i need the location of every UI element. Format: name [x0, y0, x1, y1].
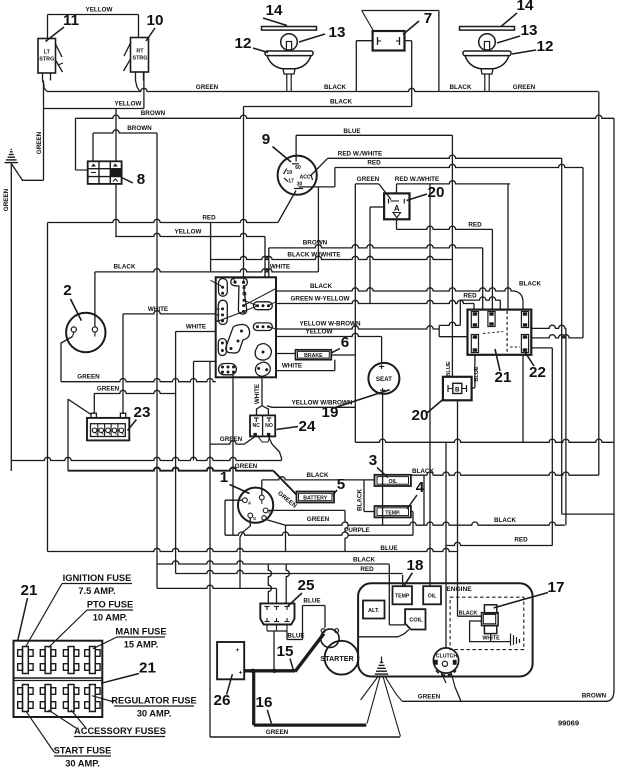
- svg-text:BLACK: BLACK: [494, 517, 516, 524]
- fuse row1 f1: [23, 647, 29, 674]
- wire hourmeter left pin down: [356, 40, 372, 42]
- alternator box: [363, 601, 385, 619]
- svg-text:OIL: OIL: [428, 594, 437, 600]
- svg-text:WHITE: WHITE: [270, 264, 290, 271]
- svg-text:BLACK: BLACK: [324, 84, 346, 91]
- wire item2 left green: [61, 337, 73, 382]
- dashed box 17: [450, 597, 524, 649]
- svg-text:ALT.: ALT.: [368, 608, 380, 614]
- svg-text:COIL: COIL: [409, 618, 423, 624]
- wire yellow top between steering switches: [48, 14, 139, 16]
- wire green bus y470 thick: [68, 468, 273, 471]
- wire black oil temp left: [363, 480, 365, 512]
- svg-text:BROWN: BROWN: [127, 125, 152, 132]
- wire red w white from sw9 acc: [310, 158, 328, 176]
- svg-text:18: 18: [407, 557, 424, 574]
- svg-text:7.5 AMP.: 7.5 AMP.: [78, 586, 115, 596]
- connector pad E bottom right: [253, 360, 273, 379]
- wire key A purple: [225, 499, 243, 501]
- svg-text:GREEN: GREEN: [36, 131, 43, 154]
- svg-text:17: 17: [288, 179, 294, 185]
- long vertical x156: [156, 133, 158, 588]
- long vertical x193: [193, 361, 195, 460]
- coil box: [405, 609, 425, 629]
- wire black y106: [244, 106, 412, 108]
- wire green bus y91: [43, 81, 48, 92]
- svg-text:30 AMP.: 30 AMP.: [137, 709, 172, 719]
- wire brown bus y118: [76, 115, 615, 118]
- svg-text:13: 13: [521, 22, 538, 39]
- svg-text:GREEN: GREEN: [220, 436, 243, 443]
- wire A box bottom red: [396, 219, 398, 229]
- connector pad B2: [253, 323, 272, 331]
- wire y443 long: [355, 439, 614, 442]
- svg-text:20: 20: [412, 407, 429, 424]
- wire ground down green left edge: [11, 164, 43, 181]
- svg-text:GREEN: GREEN: [266, 729, 289, 736]
- long vertical x233: [232, 377, 234, 535]
- wire black white y272: [95, 269, 319, 272]
- wire yellow y336: [276, 333, 382, 336]
- svg-text:+: +: [239, 670, 243, 677]
- headlamp left 12 13 14: [262, 27, 317, 31]
- svg-text:12: 12: [537, 38, 554, 55]
- wire vertical x508: [507, 184, 509, 310]
- relay contact right bottom: [521, 335, 528, 353]
- wire blue from sw9 60: [295, 135, 297, 161]
- svg-text:YELLOW: YELLOW: [115, 101, 142, 108]
- svg-text:ENGINE: ENGINE: [446, 586, 472, 593]
- svg-text:BLACK: BLACK: [357, 489, 364, 511]
- svg-text:26: 26: [214, 692, 231, 709]
- terminal strip 23: [91, 413, 96, 418]
- svg-text:RED: RED: [360, 566, 374, 573]
- svg-text:LT: LT: [44, 50, 51, 56]
- relay contact mid top: [488, 312, 495, 327]
- fuse row2 f1: [23, 685, 29, 712]
- svg-text:START FUSE: START FUSE: [54, 746, 112, 756]
- svg-text:YELLOW: YELLOW: [306, 329, 333, 336]
- svg-text:BROWN: BROWN: [582, 692, 607, 699]
- svg-text:GREEN: GREEN: [418, 693, 441, 700]
- wire yellow wbrown from 24 junction: [267, 406, 276, 408]
- wire y588 ground row: [157, 585, 277, 588]
- wire blue snake to solenoid: [286, 631, 288, 635]
- wire brake right: [331, 354, 355, 356]
- wire green thin row y460: [11, 457, 281, 460]
- oil sender engine: [423, 586, 441, 604]
- wire red y544 clutch: [446, 542, 552, 545]
- wire green from 24 NC: [240, 436, 255, 444]
- svg-text:BLACK: BLACK: [459, 611, 478, 617]
- wire relay right side1: [531, 325, 566, 328]
- wire key S down: [240, 518, 250, 537]
- fuse row1 f2: [45, 647, 51, 674]
- wire red y337 relay right: [531, 335, 583, 338]
- wire vertical x370 abox left: [370, 206, 384, 208]
- connector pad D bottom left: [219, 364, 237, 375]
- svg-text:RED: RED: [463, 293, 477, 300]
- wire brown2 y133: [93, 130, 157, 133]
- wire sw9 to red y222: [278, 191, 296, 223]
- fuse row2 f4: [90, 685, 96, 712]
- svg-text:GREEN: GREEN: [97, 386, 120, 393]
- long vertical x210: [209, 361, 211, 737]
- wire red to temp engine: [402, 575, 404, 586]
- svg-text:7: 7: [424, 10, 432, 27]
- svg-text:BLACK: BLACK: [306, 472, 328, 479]
- svg-text:TEMP: TEMP: [395, 594, 410, 600]
- switch 24 NC NO: [250, 415, 275, 436]
- wire blue vertical x452 to B box: [451, 135, 453, 376]
- svg-text:13: 13: [329, 24, 346, 41]
- svg-text:TEMP.: TEMP.: [385, 511, 401, 517]
- svg-text:GREEN: GREEN: [357, 176, 380, 183]
- relay dashed divider: [506, 311, 508, 354]
- svg-text:BLUE: BLUE: [303, 598, 320, 605]
- wire oil right black: [411, 477, 419, 479]
- svg-text:GREEN: GREEN: [513, 84, 536, 91]
- oil gauge 3: [375, 475, 411, 486]
- wire red w white 2: [397, 181, 511, 184]
- svg-text:10 AMP.: 10 AMP.: [93, 613, 128, 623]
- wire red bracket relay: [460, 297, 500, 300]
- ignition switch 9: [278, 156, 317, 195]
- svg-text:BATTERY: BATTERY: [303, 496, 327, 502]
- svg-text:B: B: [455, 386, 460, 393]
- fuse row1 f4: [90, 647, 96, 674]
- svg-text:2: 2: [63, 282, 71, 299]
- wire relay8 feed vertical: [115, 109, 117, 162]
- battery switch 5: [297, 492, 335, 503]
- svg-text:22: 22: [529, 364, 546, 381]
- switch RT STRG 10: [131, 38, 149, 73]
- svg-text:CLUTCH: CLUTCH: [436, 654, 458, 660]
- wire relay8 bottom to yellow y236: [115, 184, 117, 237]
- wire blue y552: [48, 548, 458, 551]
- switch 24 actuator: [258, 436, 270, 442]
- fuse row1 f3: [68, 647, 74, 674]
- wire yellow y108 from RT switch: [143, 72, 145, 109]
- connector pad A1: [219, 279, 228, 297]
- svg-text:25: 25: [298, 577, 315, 594]
- long vertical x175: [175, 332, 177, 574]
- svg-text:9: 9: [262, 131, 270, 148]
- svg-text:GREEN W-YELLOW: GREEN W-YELLOW: [291, 296, 350, 303]
- svg-text:YELLOW W-BROWN: YELLOW W-BROWN: [299, 321, 361, 328]
- svg-text:STRG: STRG: [39, 57, 54, 63]
- starter solenoid: [321, 629, 339, 647]
- svg-text:YELLOW: YELLOW: [175, 229, 202, 236]
- svg-text:6: 6: [341, 334, 349, 351]
- svg-text:21: 21: [21, 582, 38, 599]
- ground symbol 17: [510, 633, 512, 645]
- svg-text:WHITE: WHITE: [186, 324, 206, 331]
- wire sw9 30 junction down white: [317, 187, 319, 272]
- wire brown y248: [269, 245, 483, 248]
- wire green to A box: [355, 183, 379, 185]
- wire black y291 to relay: [276, 288, 523, 310]
- svg-text:17: 17: [548, 579, 565, 596]
- wire yellow y236: [115, 233, 265, 236]
- svg-text:21: 21: [495, 369, 512, 386]
- wire clutch down: [451, 672, 455, 687]
- svg-text:16: 16: [256, 694, 273, 711]
- svg-text:PTO FUSE: PTO FUSE: [87, 600, 133, 610]
- svg-text:23: 23: [134, 404, 151, 421]
- svg-text:BLACK: BLACK: [449, 84, 471, 91]
- wire key G2 to green black: [266, 520, 286, 526]
- svg-text:10: 10: [147, 12, 164, 29]
- svg-text:15 AMP.: 15 AMP.: [124, 640, 159, 650]
- ground fan lines: [361, 677, 378, 701]
- temp sender engine: [393, 586, 413, 604]
- connector pad B1: [253, 302, 272, 310]
- clutch: [433, 648, 458, 673]
- svg-text:1: 1: [220, 469, 229, 486]
- switch 2: [66, 313, 105, 352]
- svg-text:GREEN: GREEN: [235, 463, 258, 470]
- wire right x616 bus down: [613, 118, 615, 690]
- wire green w yellow y303: [276, 300, 474, 303]
- svg-text:BLACK: BLACK: [330, 99, 352, 106]
- fuse row2 f2: [45, 685, 51, 712]
- wire connector bottom to x233: [232, 375, 234, 377]
- connector 17: [484, 605, 496, 613]
- svg-text:BLACK: BLACK: [113, 264, 135, 271]
- svg-text:BLUE: BLUE: [287, 632, 304, 639]
- svg-text:12: 12: [235, 35, 252, 52]
- svg-text:19: 19: [287, 170, 293, 176]
- wire vertical x243 down: [243, 107, 245, 278]
- svg-text:8: 8: [137, 171, 145, 188]
- svg-text:+: +: [236, 647, 240, 654]
- diode box A 20: [384, 193, 409, 219]
- connector pad C blob: [255, 344, 271, 360]
- relay contact right top: [521, 312, 528, 328]
- svg-text:BROWN: BROWN: [303, 240, 328, 247]
- svg-text:MAIN FUSE: MAIN FUSE: [115, 627, 166, 637]
- wire black y564: [157, 561, 389, 564]
- svg-text:RED: RED: [367, 160, 381, 167]
- svg-text:WHITE: WHITE: [148, 306, 168, 313]
- wire green y381 to connector: [61, 379, 216, 382]
- svg-text:RED W./WHITE: RED W./WHITE: [395, 176, 439, 183]
- svg-text:NO: NO: [265, 423, 273, 429]
- hour meter 7: [373, 31, 405, 51]
- svg-text:GREEN: GREEN: [307, 516, 330, 523]
- svg-text:BRAKE: BRAKE: [304, 353, 323, 359]
- svg-text:BLACK: BLACK: [519, 281, 541, 288]
- headlamp right 12 13 14: [460, 27, 515, 31]
- svg-text:BLACK: BLACK: [353, 557, 375, 564]
- svg-text:GREEN: GREEN: [196, 84, 219, 91]
- connector pad T keyhole: [231, 278, 248, 314]
- key switch 1: [238, 488, 273, 523]
- wire key G green: [268, 509, 345, 511]
- relay contact left bottom: [471, 335, 478, 353]
- wire 25 bottom stubs: [266, 625, 268, 632]
- svg-text:WHITE: WHITE: [254, 384, 261, 404]
- svg-text:5: 5: [337, 476, 346, 493]
- wire red y222: [48, 219, 278, 222]
- wire white2 y331: [176, 331, 217, 333]
- wire x561 rww down: [561, 158, 563, 514]
- wire stub y361: [194, 360, 216, 362]
- svg-text:SEAT: SEAT: [376, 376, 392, 383]
- wire green brown bottom: [402, 700, 608, 702]
- connector 25: [260, 603, 294, 624]
- wire item23 left bracket: [67, 399, 69, 471]
- relay 8: [88, 161, 122, 184]
- svg-text:14: 14: [517, 0, 534, 14]
- svg-text:11: 11: [63, 12, 80, 29]
- svg-text:BLACK W./WHITE: BLACK W./WHITE: [287, 252, 340, 259]
- svg-text:YELLOW: YELLOW: [86, 7, 113, 14]
- wire y514: [562, 513, 614, 515]
- svg-text:99069: 99069: [558, 719, 579, 728]
- switch LT STRG 11: [38, 39, 56, 74]
- brake switch 6: [276, 353, 296, 355]
- battery cable 16 thick: [252, 671, 255, 725]
- seat switch 19: [368, 363, 399, 394]
- wire white brake: [276, 370, 335, 372]
- svg-text:RED W./WHITE: RED W./WHITE: [338, 150, 382, 157]
- svg-text:3: 3: [369, 452, 377, 469]
- svg-text:BLUE: BLUE: [446, 361, 452, 376]
- relay contact left top: [471, 312, 478, 328]
- svg-text:30 AMP.: 30 AMP.: [65, 759, 100, 768]
- ground symbol engine: [381, 657, 383, 663]
- svg-text:OIL: OIL: [388, 479, 397, 485]
- wire hourmeter right pin black: [405, 40, 412, 42]
- fuse row2 f3: [68, 685, 74, 712]
- battery 26: [217, 642, 244, 679]
- connector pad A2: [218, 300, 227, 324]
- svg-text:A: A: [394, 204, 400, 213]
- svg-text:RED: RED: [514, 536, 528, 543]
- wire coil ground to engine: [398, 630, 409, 637]
- wire B box bottom: [457, 400, 459, 616]
- wire from 24 NO down: [268, 436, 281, 460]
- wire black w white y259: [211, 256, 453, 259]
- relay module 21 22: [468, 310, 532, 355]
- wire hourmeter funnel top: [362, 10, 439, 12]
- svg-text:RT: RT: [136, 49, 144, 55]
- wire relay right side2: [531, 347, 552, 349]
- wire relay bottom right: [522, 355, 524, 443]
- svg-text:S: S: [253, 516, 256, 521]
- wire 25 pin feeds: [268, 564, 271, 603]
- wire right x598 lamps to oil: [598, 92, 600, 476]
- svg-text:NC: NC: [253, 423, 261, 429]
- svg-text:15: 15: [277, 643, 294, 660]
- wire red from sw9 30: [299, 186, 335, 188]
- connector pad center 9 shape: [226, 325, 250, 354]
- wire blue into connector 17: [458, 615, 482, 617]
- svg-text:WHITE: WHITE: [282, 363, 302, 370]
- svg-text:STARTER: STARTER: [320, 654, 354, 663]
- ground G1 left: [5, 162, 19, 164]
- svg-text:60: 60: [295, 165, 301, 171]
- diode box B 20: [443, 377, 472, 401]
- connector pad A3: [218, 339, 226, 356]
- wire bottom green y737: [210, 736, 400, 738]
- svg-text:RED: RED: [468, 222, 482, 229]
- svg-text:REGULATOR FUSE: REGULATOR FUSE: [111, 696, 196, 706]
- svg-text:BLACK: BLACK: [310, 283, 332, 290]
- wire temp right purple link: [411, 511, 413, 513]
- wire vertical x355: [354, 184, 356, 442]
- svg-text:BLUE: BLUE: [474, 366, 480, 381]
- svg-text:BROWN: BROWN: [141, 110, 166, 117]
- wire seat top yellow: [381, 337, 383, 363]
- svg-text:BLUE: BLUE: [380, 545, 397, 552]
- engine outline: [358, 583, 532, 676]
- battery cable 15 thick: [244, 669, 295, 672]
- wire black to coil: [388, 565, 390, 625]
- wire white1 y313: [123, 311, 216, 314]
- wire vertical x430: [429, 184, 431, 586]
- wire seat bottom: [382, 394, 384, 525]
- fuse block 21: [14, 641, 103, 717]
- svg-text:ACC: ACC: [300, 175, 311, 181]
- wire white 17 to ground: [470, 621, 511, 642]
- wire yellow w brown y329: [276, 326, 439, 329]
- svg-text:GREEN: GREEN: [3, 188, 10, 211]
- connector internal diagonals: [217, 312, 244, 322]
- temp gauge 4: [375, 506, 411, 517]
- wire key top to oil black: [261, 480, 263, 495]
- svg-text:21: 21: [139, 660, 156, 677]
- svg-text:24: 24: [299, 418, 316, 435]
- wire green y393 item23: [94, 390, 175, 393]
- svg-text:14: 14: [266, 2, 283, 19]
- starter motor: [325, 641, 359, 675]
- wire white below connector: [261, 377, 263, 405]
- svg-text:RED: RED: [202, 215, 216, 222]
- svg-text:STRG: STRG: [133, 56, 148, 62]
- svg-text:BLUE: BLUE: [343, 128, 360, 135]
- svg-text:GREEN: GREEN: [77, 374, 100, 381]
- wire oil black to lamps vertical: [411, 472, 599, 475]
- wire white split to 24: [257, 406, 263, 416]
- wire item2 right up black: [94, 272, 96, 327]
- connector block main harness: [216, 277, 276, 377]
- svg-text:ACCESSORY FUSES: ACCESSORY FUSES: [74, 726, 166, 736]
- wire red y573: [176, 570, 403, 573]
- wire relay bottom left blue: [474, 355, 476, 388]
- svg-text:IGNITION FUSE: IGNITION FUSE: [63, 573, 132, 583]
- wire left vertical to ground: [43, 81, 45, 181]
